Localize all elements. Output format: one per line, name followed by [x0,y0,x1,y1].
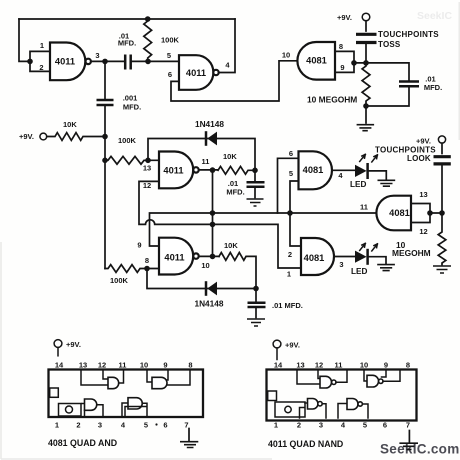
svg-text:4011 QUAD NAND: 4011 QUAD NAND [268,439,343,449]
IC1 gate C box [85,405,104,417]
svg-text:5: 5 [167,51,171,60]
wire U2a input bracket [335,51,366,72]
IC2 gate D [347,399,358,410]
svg-text:1N4148: 1N4148 [195,119,224,129]
svg-text:12: 12 [419,227,427,236]
svg-text:8: 8 [339,42,343,51]
svg-text:10: 10 [360,360,368,369]
svg-text:3: 3 [98,421,102,430]
terminal +9V IC1 [54,340,62,348]
wire U2b output to LED1 [332,169,355,171]
IC1 gate A output to pin 11 [119,370,124,383]
resistor R1 10K [47,133,105,141]
svg-text:3: 3 [339,260,343,269]
svg-text:SeekIC.com: SeekIC.com [380,442,460,457]
diode D1 1N4148 [148,139,255,171]
junction net Q pin5 tie [287,210,293,216]
junction U2d inputs [427,210,433,216]
junction node 3 [102,59,108,65]
svg-text:TOSS: TOSS [378,40,401,49]
junction U1c output [210,167,216,173]
LED D4 arrows [360,243,378,251]
junction look node [439,210,445,216]
svg-text:10 MEGOHM: 10 MEGOHM [307,95,357,105]
svg-text:LED: LED [351,267,367,276]
junction pin 8 / D2 [144,266,150,272]
svg-text:100K: 100K [110,276,129,285]
wire LED1 to ground [369,171,387,179]
svg-text:4011: 4011 [186,68,206,78]
svg-text:5: 5 [363,421,367,430]
svg-text:2: 2 [297,421,301,430]
wire U2d input bracket [411,204,442,223]
LED D3 arrows [360,154,378,162]
resistor R3 100K vertical [144,19,152,61]
svg-text:11: 11 [335,360,343,369]
IC2 gate B wires pins 10,9 [364,370,386,381]
svg-text:11: 11 [202,157,210,166]
svg-text:10: 10 [201,261,209,270]
scan artifact edges [1,242,272,459]
junction left rail R2 [102,158,108,164]
IC2 body [267,370,417,421]
svg-text:1N4148: 1N4148 [194,299,223,309]
IC2 gate C [308,399,318,410]
op gate U1c 4011 NAND [159,152,193,189]
svg-text:9: 9 [163,360,167,369]
op gate U1a 4011 NAND [50,43,85,81]
op gate U2a 4081 AND (mirrored) [297,42,335,80]
svg-text:9: 9 [137,241,141,250]
wire U2c output to LED2 [334,256,355,258]
junction pin13 / D1 [145,158,151,164]
IC2 gate B [367,375,379,387]
svg-text:.001: .001 [123,94,138,103]
svg-text:14: 14 [55,360,64,369]
IC1 gate B wires pins 10,9 [147,370,168,382]
IC2 gate C input [305,402,308,404]
IC2 gate D box [362,404,368,418]
svg-text:9: 9 [384,360,388,369]
svg-text:+9V.: +9V. [19,132,34,141]
IC1 gate D input [122,403,128,417]
svg-text:MFD.: MFD. [226,188,244,197]
svg-text:100K: 100K [118,136,137,145]
svg-text:14: 14 [274,360,283,369]
IC1 gate A wires pins 13,12 [81,370,108,385]
IC2 gate C box [300,404,327,418]
IC1 body [49,370,204,418]
junction U2a inputs [351,60,357,66]
svg-text:4081 QUAD AND: 4081 QUAD AND [48,438,117,448]
svg-text:10K: 10K [63,120,77,129]
svg-text:MFD.: MFD. [123,103,141,112]
svg-text:10: 10 [282,51,290,60]
svg-text:12: 12 [98,360,106,369]
wire net Qb from pin 12 with hop [139,181,301,268]
wire top feedback rail [19,18,235,20]
wire left feedback drop to gate U1a inputs [19,19,30,61]
svg-text:MFD.: MFD. [118,39,136,48]
resistor R4 100K to pin 8 [105,265,159,273]
svg-text:4081: 4081 [389,208,410,218]
wire U1c output [199,169,218,171]
op gate U1d 4011 NAND [159,238,193,275]
svg-text:LOOK: LOOK [407,154,431,163]
op gate U1b 4011 NAND [179,55,213,90]
IC1 gate A [108,377,119,388]
svg-text:13: 13 [143,164,151,173]
wire U1b output up to rail [219,19,235,73]
wire LED2 to ground [369,257,386,264]
IC2 pin1 box [275,402,305,417]
wire pin 5 / pin 2 tie [290,181,301,246]
op gate U2b 4081 AND [299,151,332,189]
svg-text:4081: 4081 [304,253,325,263]
resistor R6 10K [219,253,256,289]
IC1 gate C input [82,403,85,405]
svg-text:6: 6 [383,421,387,430]
svg-text:12: 12 [315,360,323,369]
svg-text:100K: 100K [161,36,180,45]
capacitor C2 .001 MFD [97,100,114,105]
junction D1/R5/C5 [252,168,258,174]
IC2 gate D input [338,404,347,419]
svg-text:11: 11 [360,203,368,212]
wire look to node [441,166,443,213]
ground G2 [378,180,396,186]
svg-text:10: 10 [140,360,148,369]
ground G3 [377,265,395,271]
IC1 gate D [128,398,142,409]
wire U1a input bracket pins 1-2 [30,51,50,71]
svg-text:10K: 10K [224,241,238,250]
IC2 gate A [320,376,332,388]
junction FF net Q [210,210,216,216]
svg-text:13: 13 [419,190,427,199]
wire touchpoints down [365,45,367,63]
wire +9V look down [441,143,443,153]
terminal +9V IC2 [273,340,281,348]
IC1 pin1 box [59,404,82,417]
wire flip-flop cross link vertical [212,170,214,256]
IC2 notch [268,391,277,401]
svg-text:1: 1 [274,421,278,430]
svg-text:SeekIC: SeekIC [417,10,452,22]
svg-text:2: 2 [39,63,43,72]
junction R7 bottom [363,103,369,109]
IC1 gate B [152,377,167,388]
IC1 notch [50,388,59,397]
svg-text:11: 11 [119,360,127,369]
IC1 gate B output to pin 8 [167,370,190,385]
resistor R5 10K [218,166,255,174]
ground G8 pin 7 [408,431,410,443]
svg-text:9: 9 [340,63,344,72]
LED D3 [355,165,367,177]
LED D4 [355,251,367,263]
op gate U2c 4081 AND [301,238,334,275]
wire C2 down left rail [104,106,106,268]
IC1 pin1 circle [66,406,73,413]
svg-text:+9V.: +9V. [66,340,81,349]
IC2 gate A output to pin 11 [336,370,347,382]
junction top rail at R3 [145,16,151,22]
touchpoints TOSS plates [356,34,377,42]
svg-text:7: 7 [406,421,410,430]
svg-text:+9V.: +9V. [337,13,352,22]
svg-text:8: 8 [145,256,149,265]
IC2 gate B output to pin 8 [383,370,400,381]
resistor R8 10 MEGOHM [438,213,446,265]
ground G5 [247,199,264,206]
capacitor C4 .01 MFD [255,289,257,302]
IC1 gate D box [125,403,147,416]
svg-text:+9V.: +9V. [285,341,300,350]
wire node 3 output of U1a [91,60,124,62]
wire U1d output [199,255,219,257]
svg-text:2: 2 [76,421,80,430]
ground G7 pin 7 [188,429,190,441]
svg-text:1: 1 [40,41,44,50]
ground G6 [247,319,265,326]
capacitor C3 .01 MFD [366,63,409,80]
IC1 gate C [85,399,97,410]
svg-text:10K: 10K [223,152,237,161]
ground G1 [365,106,367,123]
junction D2/R6/C4 [253,286,259,292]
wire pin 6 to net Q [278,158,299,213]
svg-text:7: 7 [184,421,188,430]
svg-text:13: 13 [79,360,87,369]
node junction at U1a input [27,59,33,65]
svg-text:+9V.: +9V. [416,137,431,146]
svg-text:1: 1 [287,270,291,279]
junction left rail +9V [102,134,108,140]
svg-text:4011: 4011 [163,166,183,176]
svg-text:6: 6 [163,421,167,430]
diode D2 1N4148 [147,269,256,289]
svg-text:12: 12 [143,181,151,190]
svg-text:4011: 4011 [164,253,184,263]
wire U1b pin 6 loop to U2a output [171,61,298,101]
junction toss node [363,60,369,66]
svg-text:.01 MFD.: .01 MFD. [272,301,303,310]
svg-text:3: 3 [95,51,99,60]
svg-text:1: 1 [55,421,59,430]
svg-text:6: 6 [289,149,293,158]
svg-text:TOUCHPOINTS: TOUCHPOINTS [378,30,439,39]
svg-text:6: 6 [168,70,172,79]
svg-text:MEGOHM: MEGOHM [392,248,431,258]
svg-text:MFD.: MFD. [424,83,442,92]
capacitor C5 .01 MFD [254,170,256,181]
resistor R2 100K to pin 13 [105,156,159,164]
IC2 gate A wires pins 13,12 [297,370,320,384]
wire +9V to touchpoints [365,21,367,31]
svg-text:2: 2 [288,250,292,259]
svg-text:5: 5 [144,421,148,430]
wire node3 down to C2 [104,61,106,98]
artifact dot [155,423,157,425]
capacitor C1 .01 MFD [125,55,131,70]
svg-text:8: 8 [406,360,410,369]
svg-text:3: 3 [319,421,323,430]
svg-text:LED: LED [350,180,366,189]
IC2 pin1 circle [285,406,291,412]
wire C1 to U1b pin 5 [132,60,180,62]
touchpoints LOOK plates [434,157,451,164]
svg-text:4081: 4081 [306,56,327,66]
svg-text:13: 13 [296,360,304,369]
svg-text:5: 5 [289,169,293,178]
svg-text:8: 8 [188,360,192,369]
junction at R3 bottom [145,59,151,65]
resistor R7 10 MEGOHM [362,63,370,106]
svg-text:4081: 4081 [303,165,324,175]
junction FF net Qb [210,222,216,228]
op gate U2d 4081 AND (mirrored) [376,196,411,231]
svg-text:4011: 4011 [55,57,75,67]
junction U1d output [210,254,216,260]
ground G4 [433,266,451,273]
wire net Q horizontal to U2d [150,213,377,246]
